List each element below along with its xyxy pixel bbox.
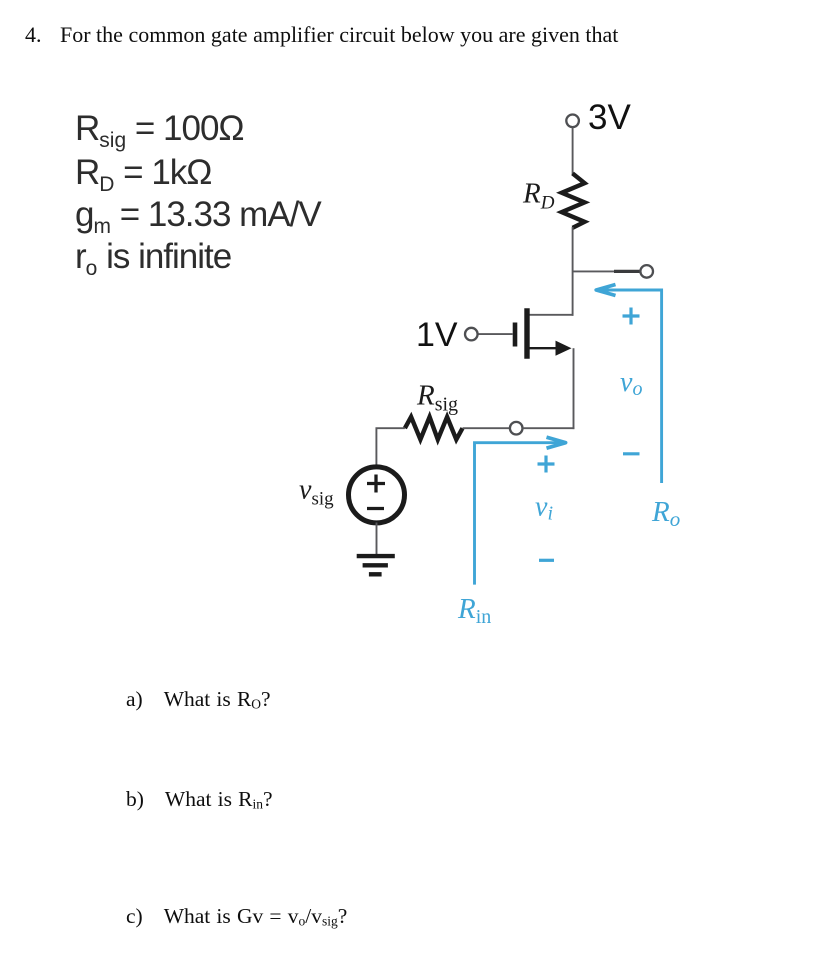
svg-text:RD: RD (522, 178, 555, 214)
vsig plus (367, 475, 385, 493)
transistor channel bar (524, 308, 529, 359)
vi plus (538, 456, 555, 473)
wire Rsig to node (463, 427, 511, 429)
wire vsig to ground (376, 523, 378, 556)
Ro measurement bracket (602, 290, 662, 483)
wire to output terminal (573, 270, 641, 272)
source arrow (556, 341, 572, 356)
svg-text:Ro: Ro (651, 496, 680, 531)
Rin arrow head (547, 437, 566, 448)
svg-text:vsig: vsig (299, 475, 334, 510)
question c (126, 904, 347, 930)
ground (357, 556, 395, 574)
drain wire (529, 314, 574, 316)
vo plus (623, 308, 640, 325)
source vertical wire (573, 348, 575, 429)
wire RD to drain junction (572, 227, 574, 316)
vi minus (539, 559, 554, 562)
svg-text:3V: 3V (588, 98, 631, 137)
Rin measurement bracket (475, 443, 561, 585)
given parameters block (75, 108, 321, 278)
svg-text:vi: vi (535, 492, 553, 525)
svg-text:1V: 1V (416, 316, 458, 354)
Ro arrow head (596, 285, 615, 296)
source vsig circle (349, 467, 405, 523)
output terminal node (640, 265, 653, 278)
transistor gate bar (513, 323, 518, 347)
question b (126, 787, 273, 813)
problem statement line (25, 22, 618, 48)
source wire (529, 347, 559, 349)
question a (126, 687, 271, 713)
resistor Rsig (405, 417, 463, 440)
3V supply terminal (566, 115, 579, 128)
vo minus (623, 452, 640, 455)
vsig minus (367, 507, 384, 510)
input node circle (510, 422, 523, 435)
wire node to source column (523, 427, 575, 429)
gate terminal node (465, 328, 478, 341)
gate wire (478, 333, 513, 335)
svg-text:Rin: Rin (457, 593, 491, 628)
wire supply to RD (572, 128, 574, 175)
wire Rsig to vsig (376, 428, 405, 467)
svg-text:vo: vo (620, 367, 642, 400)
svg-text:Rsig: Rsig (416, 380, 458, 416)
resistor RD (562, 173, 585, 227)
output lead thick segment (614, 270, 640, 273)
